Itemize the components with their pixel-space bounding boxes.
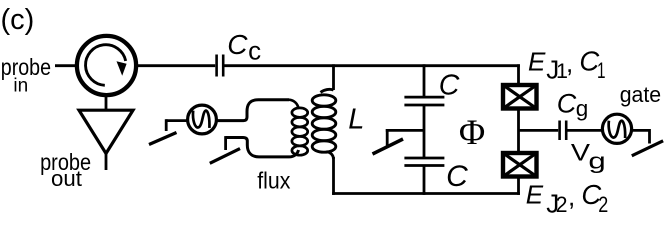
svg-text:C: C bbox=[446, 160, 468, 193]
svg-text:,: , bbox=[566, 48, 573, 78]
svg-text:V: V bbox=[571, 138, 590, 165]
svg-text:2: 2 bbox=[556, 192, 568, 218]
svg-text:C: C bbox=[227, 29, 248, 60]
svg-text:C: C bbox=[557, 88, 577, 118]
svg-text:Φ: Φ bbox=[459, 112, 485, 152]
svg-text:flux: flux bbox=[257, 167, 291, 193]
svg-text:g: g bbox=[576, 96, 589, 121]
svg-text:g: g bbox=[588, 149, 605, 173]
svg-text:c: c bbox=[248, 36, 261, 66]
svg-text:in: in bbox=[13, 76, 28, 97]
svg-text:E: E bbox=[528, 47, 546, 77]
svg-text:L: L bbox=[348, 103, 364, 135]
svg-text:(c): (c) bbox=[1, 4, 35, 36]
svg-text:out: out bbox=[51, 166, 83, 191]
svg-text:gate: gate bbox=[620, 82, 661, 107]
svg-text:2: 2 bbox=[598, 193, 608, 217]
svg-text:,: , bbox=[568, 182, 575, 212]
svg-text:E: E bbox=[526, 180, 544, 210]
svg-text:C: C bbox=[439, 69, 460, 101]
svg-text:1: 1 bbox=[597, 59, 606, 84]
